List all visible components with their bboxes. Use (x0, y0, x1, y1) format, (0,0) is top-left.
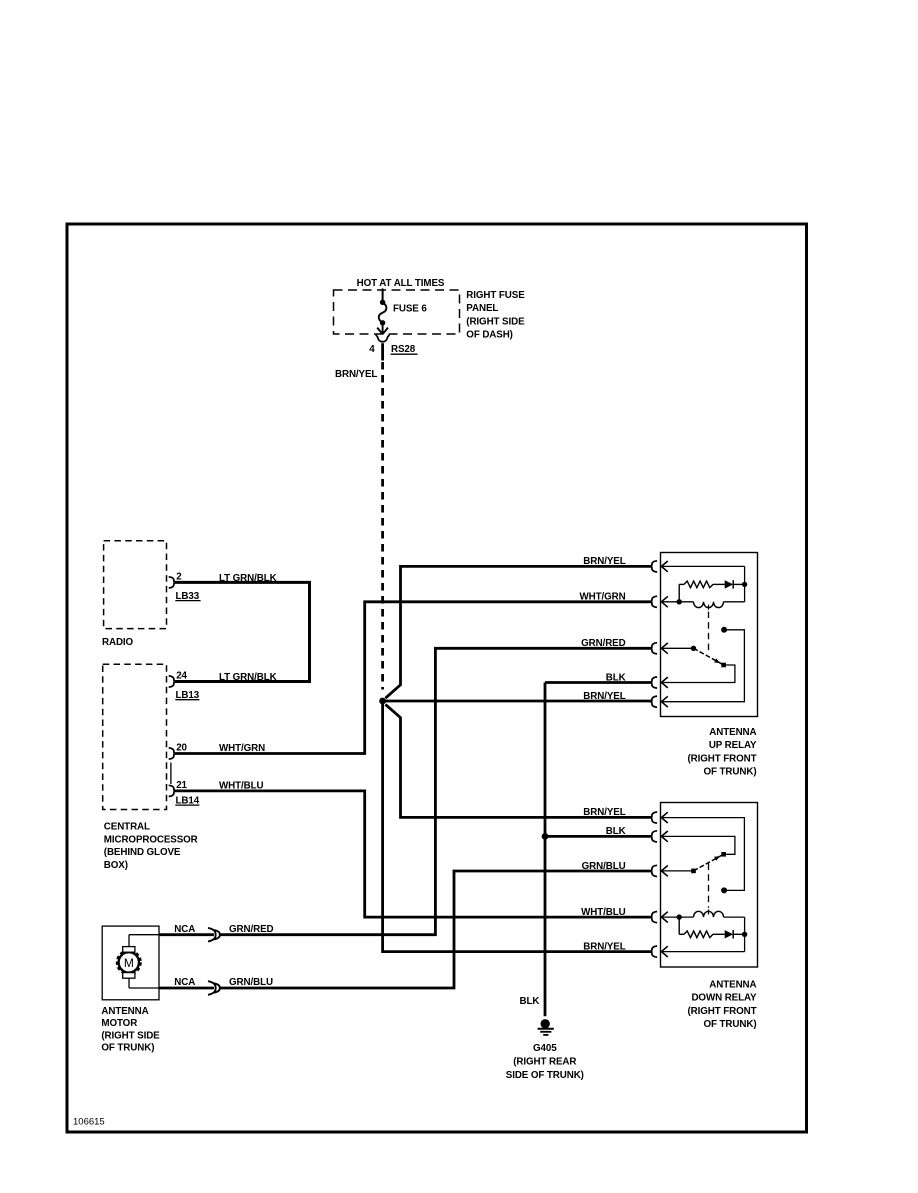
svg-text:NCA: NCA (174, 924, 195, 935)
wire GRN/RED to up relay (220, 648, 651, 934)
wire LT GRN/BLK radio pin 2 (174, 582, 310, 681)
svg-text:ANTENNA: ANTENNA (101, 1006, 148, 1017)
svg-text:BRN/YEL: BRN/YEL (583, 691, 625, 702)
svg-text:WHT/GRN: WHT/GRN (219, 743, 265, 754)
resistor down relay (679, 933, 684, 935)
pin 2 connector LB33 (169, 577, 176, 588)
svg-text:(RIGHT FRONT: (RIGHT FRONT (688, 1006, 757, 1017)
svg-text:GRN/RED: GRN/RED (229, 924, 274, 935)
junction down relay coil node (742, 932, 747, 937)
svg-text:OF TRUNK): OF TRUNK) (101, 1043, 154, 1054)
wire up relay pin2 internal (661, 601, 694, 603)
svg-text:RADIO: RADIO (102, 637, 134, 648)
diode up relay (725, 580, 734, 588)
svg-text:WHT/BLU: WHT/BLU (581, 907, 625, 918)
wire down relay pin5 internal (661, 951, 745, 953)
svg-text:BOX): BOX) (104, 860, 128, 871)
svg-text:G405: G405 (533, 1043, 557, 1054)
svg-text:(BEHIND GLOVE: (BEHIND GLOVE (104, 847, 181, 858)
svg-text:UP RELAY: UP RELAY (709, 740, 757, 751)
junction splice S (BRN/YEL) (379, 698, 386, 705)
svg-text:PANEL: PANEL (466, 303, 498, 314)
wire NCA motor down lead (159, 987, 214, 990)
junction down relay pin4 node (677, 914, 682, 919)
svg-text:21: 21 (176, 780, 187, 791)
svg-text:24: 24 (176, 671, 187, 682)
wire GRN/BLU to down relay (220, 871, 651, 988)
coil down relay (694, 911, 724, 917)
svg-text:BRN/YEL: BRN/YEL (335, 369, 377, 380)
relay antenna up relay (box) (661, 553, 758, 717)
connector bracket pins 20-21 (170, 763, 172, 785)
connector inline (GRN/BLU) (208, 981, 216, 995)
connector RS28 pin 4 (376, 335, 390, 342)
coil up relay (694, 602, 724, 608)
svg-text:OF TRUNK): OF TRUNK) (704, 767, 757, 778)
wire BLK to down relay (545, 835, 652, 838)
connector down relay pin 3 (651, 865, 658, 876)
contact down relay NC (square) (721, 852, 726, 857)
svg-text:SIDE OF TRUNK): SIDE OF TRUNK) (506, 1070, 584, 1081)
pin 20 connector (169, 748, 176, 759)
svg-text:(RIGHT SIDE: (RIGHT SIDE (101, 1031, 160, 1042)
junction up relay pin2 node (677, 599, 682, 604)
connector up relay pin 3 (651, 643, 658, 654)
connector inline (GRN/RED) (208, 928, 216, 942)
contact down relay NO (721, 887, 727, 893)
wire up relay pin5 internal (661, 630, 745, 702)
relay antenna down relay (box) (661, 803, 758, 968)
svg-text:(RIGHT REAR: (RIGHT REAR (513, 1057, 576, 1068)
motor M (armature) (118, 951, 141, 974)
radio (dashed box) (104, 541, 167, 629)
switch blade up relay (694, 648, 723, 664)
pin 24 connector LB13 (169, 676, 176, 687)
contact down relay common pivot (691, 869, 696, 874)
svg-text:106615: 106615 (73, 1117, 105, 1128)
actuator dashed link up relay (708, 612, 710, 654)
switch blade down relay (694, 855, 723, 871)
pin 21 connector LB14 (169, 785, 176, 796)
svg-text:LT GRN/BLK: LT GRN/BLK (219, 573, 277, 584)
svg-text:GRN/BLU: GRN/BLU (229, 977, 273, 988)
wire up relay resistor left leg (678, 584, 680, 601)
svg-text:WHT/BLU: WHT/BLU (219, 780, 263, 791)
svg-text:BRN/YEL: BRN/YEL (583, 556, 625, 567)
wire down relay pin3 internal (661, 870, 694, 872)
wire up relay pin3 internal (661, 647, 694, 649)
wire BRN/YEL to antenna down relay (top pin) (385, 704, 651, 817)
wire BRN/YEL splice down to down relay (bottom pin) (383, 701, 652, 952)
svg-text:WHT/GRN: WHT/GRN (579, 592, 625, 603)
contact up relay NC (square) (721, 663, 726, 668)
junction BLK branch (542, 833, 549, 840)
wire BRN/YEL from fuse (dashed) (381, 343, 384, 360)
wire down relay pin1 internal (661, 818, 745, 891)
svg-text:BLK: BLK (520, 996, 540, 1007)
connector down relay pin 1 (651, 812, 658, 823)
connector up relay pin 1 (651, 561, 658, 572)
wire BRN/YEL splice to up relay (bottom pin) (383, 700, 652, 703)
svg-text:BRN/YEL: BRN/YEL (583, 807, 625, 818)
svg-text:BLK: BLK (606, 826, 626, 837)
central microprocessor (dashed box) (103, 664, 167, 809)
wire motor internal leads (128, 935, 130, 948)
svg-text:MICROPROCESSOR: MICROPROCESSOR (104, 834, 198, 845)
connector down relay pin 2 (651, 831, 658, 842)
wire BLK up relay to ground (545, 681, 652, 684)
actuator dashed link down relay (708, 864, 710, 908)
wire down relay pin2 internal (661, 836, 735, 854)
svg-text:CENTRAL: CENTRAL (104, 822, 150, 833)
wire WHT/GRN pin 20 (174, 602, 652, 754)
svg-text:BLK: BLK (606, 672, 626, 683)
svg-text:RS28: RS28 (391, 344, 416, 355)
right fuse panel box (334, 290, 460, 334)
svg-text:OF TRUNK): OF TRUNK) (704, 1019, 757, 1030)
svg-text:GRN/BLU: GRN/BLU (582, 861, 626, 872)
fuse FUSE 6 (382, 289, 384, 301)
wire up relay pin1 internal (661, 565, 745, 567)
svg-text:GRN/RED: GRN/RED (581, 638, 626, 649)
diode down relay (725, 930, 734, 938)
wire WHT/BLU pin 21 (174, 791, 652, 917)
contact up relay NO (721, 627, 727, 633)
svg-text:ANTENNA: ANTENNA (709, 980, 756, 991)
connector down relay pin 4 (651, 912, 658, 923)
svg-text:RIGHT FUSE: RIGHT FUSE (466, 290, 525, 301)
wire up relay pin4 internal (661, 665, 735, 683)
resistor up relay (679, 583, 684, 585)
wire NCA motor up lead (159, 933, 214, 936)
svg-text:HOT AT ALL TIMES: HOT AT ALL TIMES (357, 278, 445, 289)
svg-text:NCA: NCA (174, 977, 195, 988)
svg-text:20: 20 (176, 743, 187, 754)
svg-text:4: 4 (369, 344, 375, 355)
svg-text:MOTOR: MOTOR (101, 1018, 137, 1029)
contact up relay common pivot (691, 646, 696, 651)
connector down relay pin 5 (651, 946, 658, 957)
svg-text:(RIGHT FRONT: (RIGHT FRONT (688, 753, 757, 764)
junction up relay coil node (742, 582, 747, 587)
wire down relay pin4 internal (661, 916, 694, 918)
wire fuse output with arrowhead (382, 323, 384, 333)
svg-text:LT GRN/BLK: LT GRN/BLK (219, 672, 277, 683)
svg-text:DOWN RELAY: DOWN RELAY (691, 993, 757, 1004)
wire BRN/YEL to antenna up relay pin (top) (385, 566, 651, 698)
svg-text:ANTENNA: ANTENNA (709, 727, 756, 738)
svg-text:2: 2 (176, 571, 182, 582)
wire down relay resistor left leg (678, 917, 680, 934)
svg-text:(RIGHT SIDE: (RIGHT SIDE (466, 316, 525, 327)
svg-text:BRN/YEL: BRN/YEL (583, 941, 625, 952)
connector up relay pin 2 (651, 596, 658, 607)
svg-text:M: M (124, 956, 134, 970)
antenna motor box (102, 926, 159, 1000)
svg-text:OF DASH): OF DASH) (466, 329, 513, 340)
svg-text:FUSE 6: FUSE 6 (393, 304, 427, 315)
connector up relay pin 4 (651, 677, 658, 688)
connector up relay pin 5 (651, 696, 658, 707)
